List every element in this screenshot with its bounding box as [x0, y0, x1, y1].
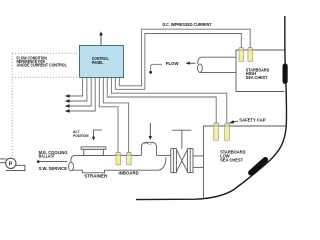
svg-text:P: P [9, 161, 13, 167]
svg-text:ANODE CURRENT CONTROL: ANODE CURRENT CONTROL [17, 63, 68, 68]
starboard low sea chest box [204, 126, 287, 198]
hull plating curve [136, 16, 287, 200]
svg-text:BALLAST: BALLAST [39, 154, 56, 159]
anode AN4 low sea chest right with safety cap [224, 123, 230, 140]
control panel box U1 [80, 46, 124, 78]
svg-text:FLOW: FLOW [166, 61, 180, 66]
anode AN2 high sea chest right [247, 48, 253, 62]
hull anode bar lower [251, 160, 265, 173]
strainer lid [81, 147, 106, 156]
arrowhead A1 [65, 94, 70, 98]
butterfly valve V1 bowtie [176, 149, 187, 171]
down arrow into hump [149, 123, 151, 137]
wire W4 panel to left arrow 4 [68, 78, 95, 112]
anode AN3 low sea chest left with safety cap [213, 123, 219, 140]
arrowhead A4 [65, 109, 70, 113]
anode AN6 strainer right [126, 152, 132, 164]
wire W10 panel to high sea chest anode right (D.C. impressed current) [119, 29, 250, 86]
pipe to high sea chest [198, 57, 237, 72]
svg-text:SEA CHEST: SEA CHEST [246, 75, 268, 80]
arrowhead A3 [65, 104, 70, 108]
flow direction arrow [189, 62, 196, 64]
svg-text:SAFETY CAP: SAFETY CAP [239, 117, 266, 122]
branch line with node dot [38, 161, 67, 163]
svg-text:PANEL: PANEL [92, 60, 104, 65]
svg-text:POSITION: POSITION [73, 134, 89, 138]
wire W9 panel to high sea chest anode left [115, 34, 241, 90]
pump suction stub at hull side [0, 159, 6, 163]
anode AN1 high sea chest left [238, 48, 244, 62]
anode AN5 strainer left [115, 152, 121, 164]
vent hump on pipe [141, 142, 156, 155]
wire W5 panel to strainer anode left [99, 78, 118, 153]
pump P1 casing circle [6, 158, 16, 168]
hull anode bar upper [283, 66, 288, 81]
wire W2 panel to left arrow 2 [68, 78, 87, 102]
wire W1 panel to left arrow 1 [68, 78, 83, 97]
wire W3 panel to left arrow 3 [68, 78, 91, 107]
dashed box flow condition reference [12, 53, 79, 157]
starboard high sea chest box [236, 50, 284, 92]
main suction pipe (strainer / inboard run) [69, 155, 171, 172]
wire W8 panel to low sea chest anode right [111, 78, 226, 123]
wire W7 panel to low sea chest anode left [107, 78, 216, 123]
wire W6 panel to strainer anode right [103, 78, 128, 153]
pipe stub valve to low sea chest [193, 156, 204, 168]
arrowhead A2 [65, 99, 70, 103]
valve V1 stem and handle [172, 130, 191, 148]
svg-text:INBOARD: INBOARD [119, 170, 139, 175]
svg-text:STRAINER: STRAINER [84, 173, 107, 178]
svg-text:S.W. SERVICE: S.W. SERVICE [39, 166, 68, 171]
pump P1 body [6, 165, 25, 170]
svg-text:D.C. IMPRESSED CURRENT: D.C. IMPRESSED CURRENT [163, 22, 212, 27]
butterfly valve V1 flanges [171, 149, 193, 173]
svg-text:SEA CHEST: SEA CHEST [220, 158, 243, 163]
arrow up from control panel [100, 35, 102, 46]
